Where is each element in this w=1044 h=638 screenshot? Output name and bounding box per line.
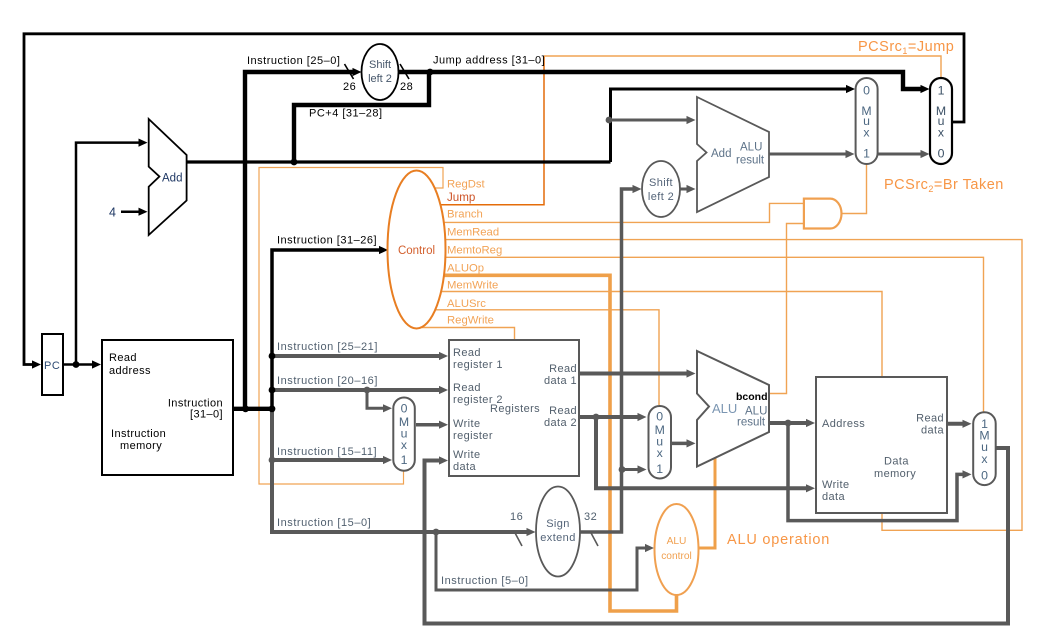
- arrow into Read register 2: [439, 386, 448, 394]
- arrow into Write register: [439, 421, 448, 429]
- svg-text:Read: Read: [109, 352, 137, 364]
- wire Data memory Read data to final mux input 1: [947, 422, 967, 426]
- wire PC+4[31-28] link from Add output up to jump address: [294, 72, 429, 162]
- svg-text:Registers: Registers: [490, 403, 540, 415]
- adder Add ALU result (branch target): [697, 97, 769, 212]
- arrow into ALU input 1: [687, 369, 696, 377]
- node Instruction[20-16] junction: [269, 387, 276, 394]
- arrow into final mux input 1: [963, 420, 972, 428]
- arrow into ALUSrc mux input 0: [638, 413, 647, 421]
- svg-text:1: 1: [863, 147, 870, 161]
- svg-text:data: data: [822, 491, 845, 503]
- svg-text:data: data: [453, 461, 476, 473]
- svg-text:Shift: Shift: [649, 177, 673, 189]
- svg-text:x: x: [981, 452, 988, 466]
- svg-text:ALUOp: ALUOp: [447, 263, 484, 275]
- wire Instruction[25-0] riser and feed into shift left 2: [245, 72, 353, 409]
- svg-text:0: 0: [656, 410, 663, 424]
- arrow into Data memory Address: [806, 419, 815, 427]
- oval shift left 2 (branch): [642, 161, 680, 217]
- svg-text:Write: Write: [453, 418, 480, 430]
- svg-text:0: 0: [981, 469, 988, 483]
- wire PC output to instruction memory: [63, 363, 96, 366]
- svg-text:Data: Data: [884, 456, 909, 468]
- svg-text:ALU: ALU: [740, 142, 762, 154]
- svg-text:Read: Read: [453, 382, 481, 394]
- oval sign extend: [536, 487, 580, 577]
- svg-text:data: data: [921, 425, 944, 437]
- adder Add (PC+4): [149, 119, 187, 235]
- wire Read data 2 to ALUSrc mux input 0: [579, 415, 642, 419]
- mux MemtoReg (write-back mux): [973, 412, 996, 485]
- svg-text:Instruction: Instruction: [111, 428, 166, 440]
- node PC feedback junction: [73, 361, 80, 368]
- arrow into shift left 2 (jump): [353, 68, 362, 76]
- arrow into Sign extend: [527, 528, 536, 536]
- svg-text:data 1: data 1: [544, 375, 577, 387]
- node [20-16] mux branch junction: [364, 387, 371, 394]
- wire RegDst: Control to write-register mux select (orange routing frame): [259, 168, 443, 485]
- svg-text:16: 16: [510, 511, 523, 523]
- svg-text:Address: Address: [822, 418, 865, 430]
- svg-text:register 1: register 1: [453, 359, 503, 371]
- label ALU control: [661, 536, 692, 562]
- arrow into jump mux input 0: [921, 150, 930, 158]
- svg-text:Instruction [20–16]: Instruction [20–16]: [277, 375, 378, 387]
- ALU U1 (main): [697, 351, 769, 467]
- wire Instruction[15-11] to write-register mux input 1: [272, 458, 387, 462]
- svg-text:RegWrite: RegWrite: [447, 315, 494, 327]
- svg-text:ALU: ALU: [667, 536, 687, 547]
- wire MemWrite: Control to data memory top: [440, 292, 882, 377]
- svg-text:[31–0]: [31–0]: [190, 409, 223, 421]
- svg-text:Write: Write: [453, 449, 480, 461]
- mux PCSrc2 (branch mux): [856, 78, 878, 164]
- svg-text:0: 0: [401, 401, 408, 415]
- wire PC write-back loop (outer frame) from jump mux output: [24, 34, 964, 365]
- svg-text:Add: Add: [711, 148, 731, 160]
- wire Add output (PC+4): [187, 160, 611, 163]
- svg-text:Jump address [31–0]: Jump address [31–0]: [433, 55, 545, 67]
- svg-text:x: x: [401, 438, 408, 452]
- node sign-extend riser junction: [619, 466, 626, 473]
- node Instruction[25-21] junction: [269, 353, 276, 360]
- svg-text:address: address: [109, 365, 151, 377]
- svg-text:Instruction [15–11]: Instruction [15–11]: [277, 446, 377, 458]
- instruction memory box: [102, 340, 233, 475]
- bus width slash 28: [400, 64, 409, 79]
- arrow into branch shift left 2: [633, 185, 642, 193]
- svg-text:0: 0: [938, 147, 945, 161]
- svg-text:Read: Read: [453, 347, 481, 359]
- arrow into jump mux input 1: [921, 85, 930, 93]
- node jump address junction: [427, 69, 434, 76]
- wire ALU result bypass to final mux input 0: [788, 423, 968, 521]
- wire PCSrc1 select line: [544, 56, 941, 77]
- wire Instruction memory output: [233, 407, 272, 411]
- svg-text:PCSrc2=Br Taken: PCSrc2=Br Taken: [884, 177, 1004, 194]
- svg-text:Write: Write: [822, 479, 849, 491]
- AND gate (branch taken): [804, 199, 842, 229]
- wire PC+4 riser to PCSrc2 mux input 0: [611, 89, 849, 162]
- wire sign extend output riser to branch shift left 2: [580, 189, 637, 532]
- svg-text:x: x: [863, 125, 870, 139]
- wire Branch: Control to AND gate top input: [443, 203, 804, 222]
- node Read data 2 junction: [593, 414, 600, 421]
- wire MemtoReg: Control to final mux select: [445, 257, 984, 411]
- svg-text:Control: Control: [398, 245, 435, 257]
- svg-text:x: x: [938, 125, 945, 139]
- label Add (PC+4 adder): [109, 173, 182, 220]
- arrow into PC: [32, 360, 41, 368]
- wire write-back loop: final mux output to Registers Write data: [425, 448, 1009, 624]
- svg-text:control: control: [661, 551, 692, 562]
- svg-text:Instruction [25–21]: Instruction [25–21]: [277, 341, 378, 353]
- svg-text:32: 32: [584, 511, 597, 523]
- svg-text:result: result: [737, 417, 766, 429]
- oval ALU control: [655, 504, 699, 595]
- svg-text:Read: Read: [549, 405, 577, 417]
- node PC+4 / jump-address junction: [291, 159, 298, 166]
- arrow into final mux input 0: [963, 470, 972, 478]
- svg-text:x: x: [657, 446, 664, 460]
- svg-text:bcond: bcond: [736, 391, 768, 403]
- svg-text:data 2: data 2: [544, 417, 577, 429]
- arrow into write-register mux input 1: [383, 456, 392, 464]
- label Shift left 2 (jump): [368, 59, 392, 85]
- arrow into PCSrc2 mux input 1: [846, 150, 855, 158]
- svg-text:PC+4 [31–28]: PC+4 [31–28]: [309, 108, 383, 120]
- svg-text:28: 28: [400, 81, 413, 93]
- node instruction bus junction (vertical): [269, 405, 276, 412]
- arrow into branch adder bottom input: [687, 185, 696, 193]
- wire Instruction[5-0] to ALU control: [436, 532, 650, 590]
- svg-text:extend: extend: [540, 532, 575, 544]
- svg-text:1: 1: [656, 462, 663, 476]
- svg-text:memory: memory: [120, 440, 162, 452]
- arrow into ALUSrc mux input 1: [638, 465, 647, 473]
- svg-text:Instruction [5–0]: Instruction [5–0]: [441, 575, 529, 587]
- svg-text:ALU operation: ALU operation: [727, 532, 830, 548]
- arrow into write-register mux input 0: [383, 404, 392, 412]
- bus width slash 26: [345, 64, 354, 79]
- wire Read data 1 to ALU: [579, 372, 691, 376]
- arrow into ALU input 2: [687, 439, 696, 447]
- wire sign extend riser into ALUSrc mux input 1: [622, 468, 642, 471]
- node PC+4 branch to adder junction: [606, 117, 613, 124]
- arrow into Add top input: [139, 139, 148, 147]
- wire ALUOp: Control to ALU control (thick): [444, 275, 677, 611]
- svg-text:left 2: left 2: [368, 73, 392, 85]
- arrow into ALU control: [645, 544, 654, 552]
- wire AND output to PCSrc2 mux select: [841, 164, 866, 214]
- svg-text:Branch: Branch: [447, 209, 483, 221]
- bus width slash 16: [514, 531, 522, 546]
- wire Instruction[20-16] to Read register 2: [272, 388, 443, 392]
- svg-text:result: result: [736, 155, 765, 167]
- svg-text:Jump: Jump: [447, 191, 475, 204]
- svg-text:1: 1: [938, 84, 945, 98]
- svg-text:PC: PC: [44, 360, 60, 372]
- arrow into branch adder top input: [687, 116, 696, 124]
- wire ALUSrc: Control to ALU mux select: [435, 310, 659, 405]
- svg-text:4: 4: [109, 206, 116, 220]
- svg-text:Instruction [31–26]: Instruction [31–26]: [277, 235, 377, 247]
- mux PCSrc1 (jump mux): [930, 78, 952, 164]
- wire Instruction[25-21] to Read register 1: [272, 354, 443, 358]
- arrow into Add bottom input: [139, 208, 148, 216]
- wire constant 4 into Add: [121, 210, 141, 213]
- mux RegDst (write register mux): [393, 398, 415, 471]
- svg-text:0: 0: [863, 84, 870, 98]
- svg-text:Instruction [15–0]: Instruction [15–0]: [277, 517, 371, 529]
- wire write-register mux output to Write register: [416, 423, 443, 427]
- arrow into PCSrc2 mux input 0: [846, 85, 855, 93]
- registers box: [449, 340, 579, 476]
- wire MemRead: Control to data memory bottom: [445, 240, 1022, 531]
- wire ALU operation: ALU control to ALU (thick): [697, 456, 715, 548]
- svg-text:register: register: [453, 430, 493, 442]
- PC register box: [42, 334, 63, 395]
- wire branch of [20-16] down into write-register mux input 0: [367, 390, 387, 408]
- wire PC to Add top input: [76, 143, 141, 365]
- node ALU result junction: [785, 420, 792, 427]
- svg-text:MemtoReg: MemtoReg: [447, 245, 502, 257]
- wire PC+4 into branch adder top input: [609, 119, 691, 122]
- svg-text:Sign: Sign: [546, 518, 570, 530]
- oval shift left 2 (jump): [362, 44, 399, 100]
- svg-text:left 2: left 2: [648, 191, 674, 203]
- node Instruction[15-11] junction: [269, 457, 276, 464]
- wire branch adder output to PCSrc2 mux input 1: [769, 153, 850, 156]
- wire ALU result to Data memory Address: [769, 421, 810, 425]
- node Instruction[15-0] junction: [433, 529, 440, 536]
- svg-text:Read: Read: [549, 363, 577, 375]
- wire Jump address [31-0] from shift left 2 to jump mux input 1: [398, 72, 921, 89]
- wire Read data 2 branch down to Data memory Write data: [596, 417, 810, 488]
- wire bcond: ALU to AND gate bottom input: [769, 224, 804, 394]
- svg-text:Instruction [25–0]: Instruction [25–0]: [247, 55, 340, 67]
- data memory box: [816, 377, 947, 513]
- arrow into Data memory Write data: [806, 484, 815, 492]
- arrow into Read register 1: [439, 352, 448, 360]
- svg-text:Shift: Shift: [369, 59, 391, 71]
- wire Jump: Control to PCSrc1 mux select: [438, 56, 544, 205]
- wire Instruction[31-0] lower distribution + Instruction[15-0] to sign extend: [272, 409, 531, 532]
- svg-text:MemRead: MemRead: [447, 227, 499, 239]
- wire ALUSrc mux output to ALU: [671, 442, 691, 446]
- wire branch shift left 2 output to branch adder: [680, 188, 691, 191]
- arrow into Control: [379, 246, 388, 254]
- mux ALUSrc: [649, 406, 672, 479]
- arrow into instruction memory Read address: [92, 360, 101, 368]
- wire PCSrc2 mux output to jump mux input 0: [878, 153, 925, 156]
- svg-text:Add: Add: [162, 173, 182, 185]
- wire RegWrite: Control to Registers: [422, 328, 515, 340]
- arrow into Registers Write data: [439, 456, 448, 464]
- svg-text:26: 26: [343, 81, 356, 93]
- bus width slash 32: [590, 531, 598, 546]
- oval Control unit: [388, 171, 446, 329]
- node instruction bus junction (riser): [242, 405, 249, 412]
- wire Instruction[31-26] riser to Control: [272, 250, 383, 409]
- svg-text:memory: memory: [874, 468, 916, 480]
- svg-text:MemWrite: MemWrite: [447, 280, 498, 292]
- svg-text:ALU: ALU: [712, 401, 737, 416]
- svg-text:1: 1: [401, 453, 408, 467]
- svg-text:Read: Read: [916, 413, 944, 425]
- svg-text:ALUSrc: ALUSrc: [447, 298, 486, 310]
- svg-text:RegDst: RegDst: [447, 179, 486, 191]
